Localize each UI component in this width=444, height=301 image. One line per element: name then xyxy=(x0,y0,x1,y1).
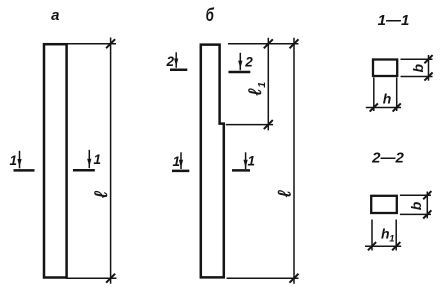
section 2-2 rectangle xyxy=(371,196,397,213)
section mark 2 left (column b): arrow stem xyxy=(175,52,177,68)
section 2-2: dimension line b xyxy=(426,192,428,219)
section mark 1 left (column a): arrow stem xyxy=(19,151,21,169)
svg-text:1—1: 1—1 xyxy=(378,12,410,29)
dimension line l (column a) xyxy=(110,38,112,284)
svg-text:а: а xyxy=(51,7,59,24)
section 1-1 rectangle xyxy=(373,60,397,77)
section 1-1: extension bottom for b xyxy=(401,76,433,78)
svg-text:1: 1 xyxy=(256,82,268,88)
svg-text:б: б xyxy=(206,5,215,26)
extension line bottom (column a) xyxy=(66,277,117,279)
dimension line l (column b) xyxy=(293,38,295,284)
section mark 1 left (column b): trace line xyxy=(172,170,189,173)
extension line at step for l1 (column b) xyxy=(226,124,273,126)
svg-text:1: 1 xyxy=(389,234,394,245)
svg-text:ℓ: ℓ xyxy=(275,190,295,198)
section 2-2: tick left h1 xyxy=(368,242,376,250)
section mark 1 left (column b): arrowhead xyxy=(179,160,183,168)
section 1-1: extension left for h xyxy=(373,78,375,112)
svg-text:h: h xyxy=(381,226,390,242)
section 1-1: tick left h xyxy=(370,103,378,111)
svg-text:2: 2 xyxy=(166,54,175,69)
section mark 1 right (column b): trace line xyxy=(232,169,250,172)
extension line top (column b) xyxy=(228,43,299,45)
section 2-2: extension left for h1 xyxy=(371,220,373,251)
svg-text:1: 1 xyxy=(248,154,256,169)
section 1-1: tick top b xyxy=(424,55,432,63)
column a outline xyxy=(44,44,67,277)
section 2-2: tick bottom b xyxy=(423,210,431,218)
section 1-1: dimension line h xyxy=(366,107,401,109)
section mark 1 left (column b): arrow stem xyxy=(180,152,182,169)
section 2-2: label h1 xyxy=(381,226,395,245)
section mark 2 left (column b): arrowhead xyxy=(174,59,178,67)
svg-text:b: b xyxy=(408,201,424,210)
section mark 1 left (column a): trace line xyxy=(14,169,35,172)
svg-text:b: b xyxy=(410,63,426,72)
tick bottom l1 xyxy=(264,120,273,129)
section mark 2 left (column b): trace line xyxy=(170,69,187,72)
svg-text:h: h xyxy=(383,91,392,107)
section mark 1 left (column a): arrowhead xyxy=(17,159,21,167)
dimension line l1 (column b) xyxy=(267,38,269,131)
section mark 1 right (column b): arrow stem xyxy=(245,152,247,169)
tick bottom (column a) xyxy=(106,274,115,283)
svg-text:1: 1 xyxy=(94,152,102,167)
section 2-2: extension bottom for b xyxy=(400,213,431,215)
svg-text:ℓ: ℓ xyxy=(245,88,265,96)
section mark 1 right (column a): trace line xyxy=(73,169,95,172)
section mark 1 right (column b): arrowhead xyxy=(244,160,248,168)
svg-text:ℓ: ℓ xyxy=(91,191,111,199)
extension line top (column a) xyxy=(66,43,116,45)
column b stepped outline xyxy=(201,45,224,278)
section 1-1: tick bottom b xyxy=(424,72,432,80)
svg-text:2—2: 2—2 xyxy=(371,150,404,167)
section 2-2: tick top b xyxy=(423,191,431,199)
section mark 2 right (column b): arrow stem xyxy=(239,53,241,70)
tick top (column a) xyxy=(106,39,115,48)
section mark 1 right (column a): arrow stem xyxy=(88,150,90,168)
section 1-1: extension right for h xyxy=(396,78,398,112)
svg-text:2: 2 xyxy=(244,54,253,69)
svg-text:1: 1 xyxy=(10,153,18,168)
section 1-1: extension top for b xyxy=(401,58,433,60)
extension line bottom (column b) xyxy=(227,277,299,279)
section 2-2: extension right for h1 xyxy=(395,220,397,251)
section 2-2: extension top for b xyxy=(400,194,431,196)
section 2-2: tick right h1 xyxy=(392,242,400,250)
svg-text:1: 1 xyxy=(173,154,181,169)
tick top l1 xyxy=(264,39,273,48)
tick top l (column b) xyxy=(290,39,299,48)
section 2-2: dimension line h1 xyxy=(365,245,401,247)
section mark 2 right (column b): trace line xyxy=(229,71,251,74)
section mark 2 right (column b): arrowhead xyxy=(238,61,242,69)
tick bottom l (column b) xyxy=(290,274,299,283)
section 1-1: tick right h xyxy=(393,103,401,111)
section 1-1: dimension line b xyxy=(428,55,430,81)
section mark 1 right (column a): arrowhead xyxy=(87,159,91,167)
label l1 xyxy=(245,82,268,96)
